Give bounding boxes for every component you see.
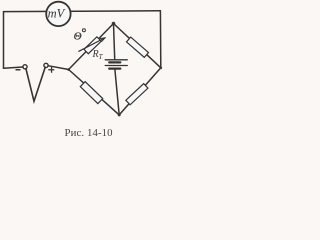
- resistor RT body: [84, 37, 101, 54]
- battery plate short 1: [109, 61, 120, 63]
- node top junction dot: [112, 22, 116, 26]
- svg-text:Рис. 14-10: Рис. 14-10: [65, 127, 113, 139]
- svg-text:RT: RT: [92, 49, 104, 61]
- battery plate long 1: [105, 59, 127, 61]
- thermocouple V junction: [26, 67, 45, 101]
- wire bridge arm upper-right: [114, 24, 161, 68]
- wire battery branch lower: [115, 70, 119, 115]
- resistor upper-right body: [126, 37, 148, 57]
- battery plate long 2: [105, 65, 127, 67]
- resistor lower-right body: [126, 84, 148, 105]
- millivoltmeter mV: [46, 2, 70, 26]
- label degree mark: [82, 29, 85, 32]
- arrow variable through RT: [79, 38, 105, 51]
- label minus: [16, 69, 21, 71]
- wire right vertical: [159, 11, 161, 68]
- label plus: [48, 69, 54, 70]
- thermocouple terminal circle right: [44, 63, 48, 67]
- wire bridge arm lower-left: [69, 70, 120, 115]
- thermocouple terminal circle left: [23, 65, 27, 69]
- battery plate short 2: [109, 67, 120, 69]
- node right junction dot: [160, 67, 163, 70]
- wire bridge arm upper-left: [69, 24, 114, 70]
- wire battery branch upper: [114, 24, 115, 59]
- wire bridge arm lower-right: [119, 68, 161, 115]
- wire left vertical: [3, 12, 5, 69]
- wire top horizontal: [4, 10, 161, 13]
- svg-text:Θ: Θ: [74, 31, 82, 43]
- node left junction dot: [67, 68, 70, 71]
- resistor lower-left body: [80, 82, 102, 104]
- wire plus terminal to left node: [48, 66, 69, 70]
- wire bottom-left horizontal: [4, 67, 24, 68]
- node bottom junction dot: [118, 113, 121, 116]
- svg-text:mV: mV: [48, 6, 66, 20]
